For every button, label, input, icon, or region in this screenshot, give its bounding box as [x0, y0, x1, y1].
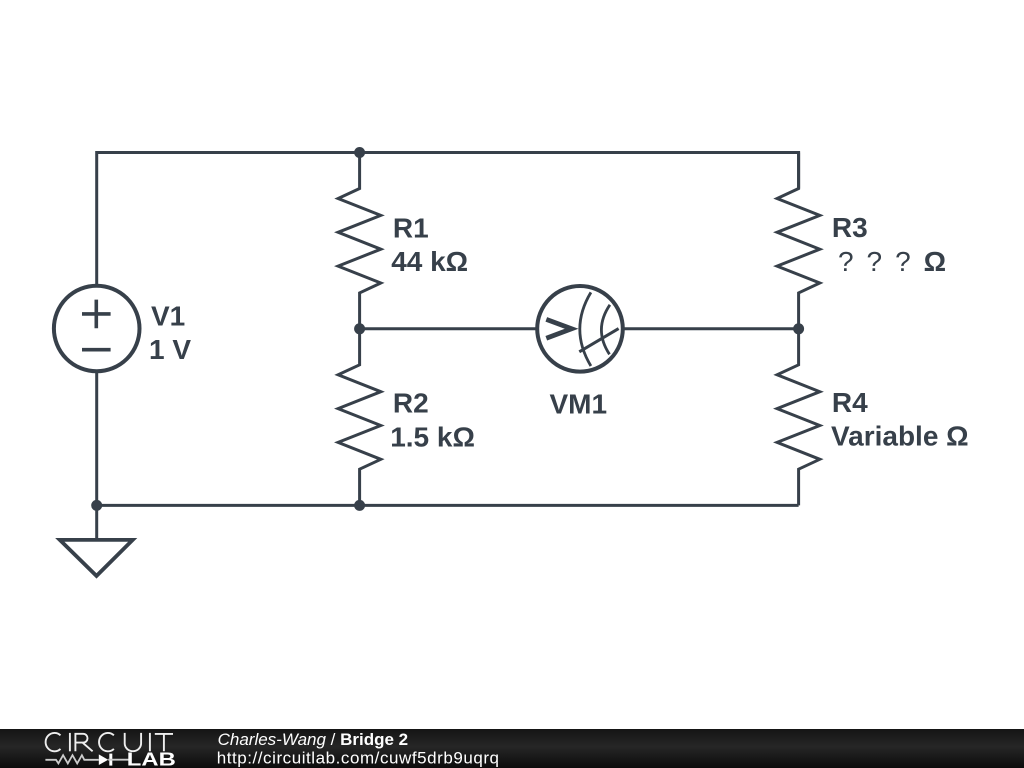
VM1 meter arc large [580, 292, 591, 366]
svg-text:LAB: LAB [127, 749, 176, 768]
node B: mid-left junction [354, 323, 365, 334]
VM1 needle [579, 329, 618, 352]
svg-text:R1: R1 [393, 212, 429, 243]
resistor R2 [338, 329, 381, 506]
resistor R3 [777, 153, 820, 329]
svg-text:V1: V1 [151, 300, 185, 331]
wire mid left (node to voltmeter) [360, 327, 538, 330]
resistor R1 [338, 153, 381, 329]
svg-text:? ? ? Ω: ? ? ? Ω [838, 246, 949, 277]
logo letter I2 [149, 733, 151, 751]
logo letter U [125, 733, 141, 751]
logo wire to LAB [108, 759, 128, 761]
svg-text:R2: R2 [393, 387, 429, 418]
svg-text:44 kΩ: 44 kΩ [391, 246, 468, 277]
voltage source V1 body [54, 286, 140, 372]
svg-text:1.5 kΩ: 1.5 kΩ [390, 422, 475, 453]
wire top rail with left and right corners [97, 153, 799, 285]
logo letter R [75, 734, 92, 752]
voltmeter VM1 body [537, 286, 623, 372]
svg-text:Variable Ω: Variable Ω [831, 420, 969, 451]
node D: ground junction [91, 500, 102, 511]
V1 plus sign [82, 300, 111, 329]
wire bottom rail [97, 504, 799, 507]
logo letter I [69, 733, 71, 751]
logo letter T [155, 734, 173, 751]
svg-text:VM1: VM1 [550, 389, 608, 420]
resistor R4 [777, 329, 820, 506]
VM1 meter arc small [601, 305, 610, 355]
wire V1 bottom to bottom rail [95, 372, 98, 505]
logo letter C2 [99, 733, 114, 751]
node E: bottom junction [354, 500, 365, 511]
svg-text:R4: R4 [832, 387, 868, 418]
logo letter C [46, 733, 61, 751]
logo resistor squiggle [45, 755, 98, 763]
svg-text:Charles-Wang / Bridge 2: Charles-Wang / Bridge 2 [218, 730, 409, 749]
ground [95, 505, 98, 540]
svg-text:http://circuitlab.com/cuwf5drb: http://circuitlab.com/cuwf5drb9uqrq [217, 749, 500, 768]
logo diode [99, 754, 108, 765]
svg-text:1 V: 1 V [149, 334, 191, 365]
svg-text:R3: R3 [832, 212, 868, 243]
VM1 chevron [546, 319, 571, 338]
node A: top junction [354, 147, 365, 158]
logo diode bar [109, 754, 112, 766]
V1 minus sign [82, 348, 111, 352]
node C: mid-right junction [793, 323, 804, 334]
wire mid right (voltmeter to node) [623, 327, 799, 330]
